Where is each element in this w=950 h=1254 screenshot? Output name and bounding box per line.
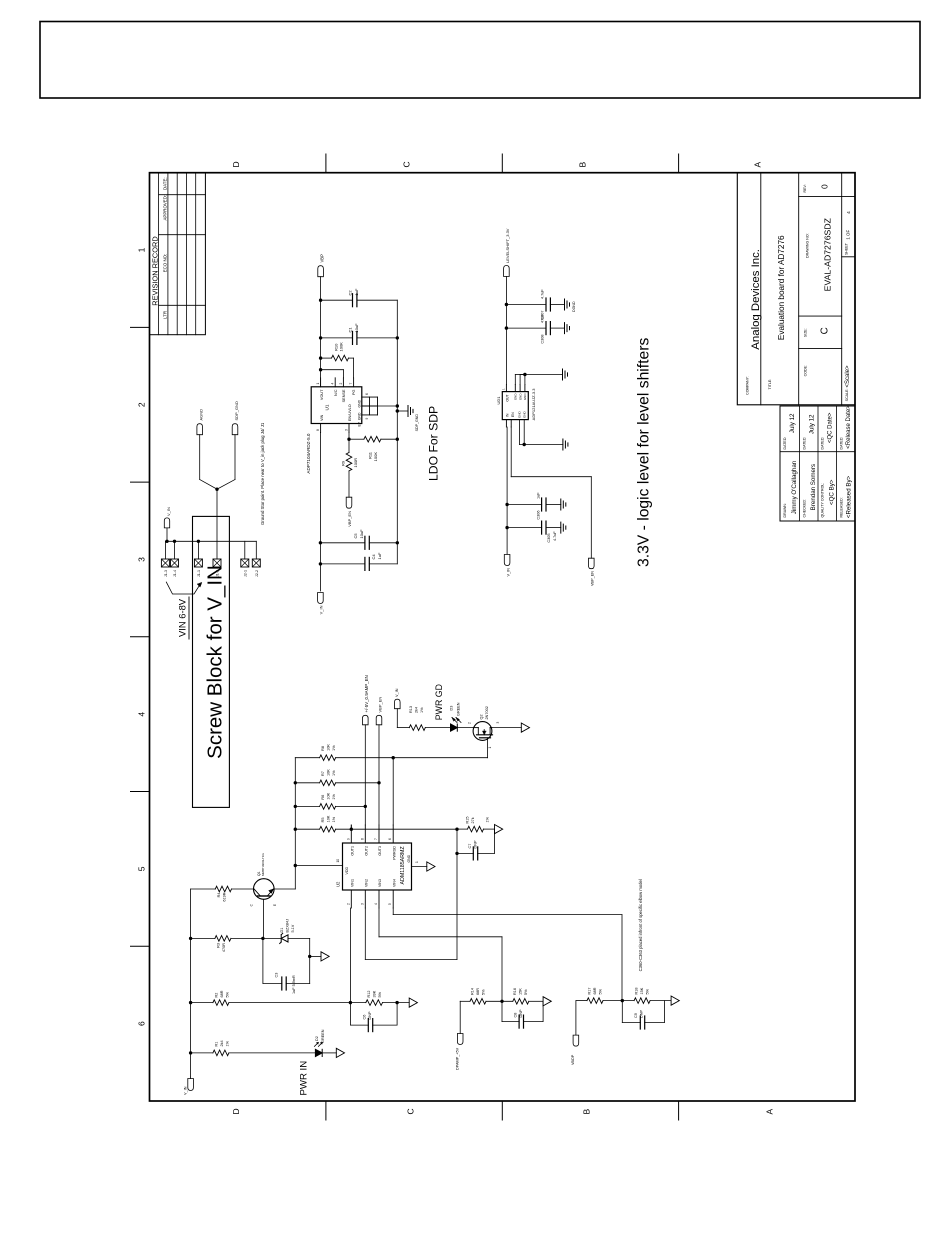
- svg-text:1uF 5.9mR: 1uF 5.9mR: [292, 975, 296, 994]
- svg-text:SIZE:: SIZE:: [804, 328, 808, 337]
- svg-text:1uF: 1uF: [354, 288, 359, 295]
- svg-text:<QC Date>: <QC Date>: [828, 412, 834, 443]
- U2 pin stubs left: [346, 890, 393, 908]
- resistor R15 27k: [457, 816, 495, 832]
- svg-text:C6: C6: [363, 1015, 367, 1020]
- svg-text:C360-C363 placed infront of sp: C360-C363 placed infront of specific elb…: [638, 879, 643, 971]
- svg-text:4.7uF: 4.7uF: [541, 289, 545, 299]
- svg-text:100K: 100K: [339, 342, 344, 352]
- svg-text:3: 3: [360, 903, 364, 905]
- transistor Q2 2N7002 mosfet: [468, 706, 501, 758]
- svg-text:470R: 470R: [222, 943, 226, 952]
- svg-text:GREEN: GREEN: [457, 702, 461, 716]
- svg-text:27k: 27k: [471, 817, 475, 823]
- svg-text:V_IN: V_IN: [395, 688, 399, 697]
- svg-text:EN/UVLO: EN/UVLO: [348, 404, 352, 421]
- ground C308 earth: [565, 323, 570, 334]
- label PWR IN: [299, 1061, 310, 1096]
- svg-text:8: 8: [316, 429, 320, 431]
- svg-text:3.3V - logic level for level s: 3.3V - logic level for level shifters: [636, 338, 653, 567]
- svg-text:2: 2: [346, 903, 350, 905]
- svg-text:D1: D1: [280, 928, 284, 933]
- svg-text:<Release Date>: <Release Date>: [846, 405, 852, 449]
- svg-text:VIN4: VIN4: [392, 879, 396, 887]
- svg-text:July 12: July 12: [809, 414, 816, 434]
- svg-text:MMBT3904LT1G: MMBT3904LT1G: [261, 853, 265, 876]
- svg-text:R16: R16: [513, 988, 517, 995]
- svg-text:CODE:: CODE:: [804, 365, 808, 376]
- svg-text:2k4: 2k4: [415, 707, 419, 713]
- UD1 left pin stubs: [506, 420, 511, 427]
- svg-text:A: A: [765, 1109, 775, 1115]
- svg-text:Screw Block for V_IN: Screw Block for V_IN: [204, 565, 227, 759]
- svg-text:OUT2: OUT2: [365, 846, 369, 856]
- flag VBP_EN levelshift: [589, 558, 595, 586]
- svg-text:DPAMP_+5V: DPAMP_+5V: [456, 1047, 460, 1070]
- svg-text:5%: 5%: [226, 991, 230, 997]
- wire UD1 EN net: [511, 427, 591, 558]
- svg-text:PWR GD: PWR GD: [434, 684, 444, 720]
- capacitor C1 10uF: [321, 323, 398, 345]
- ground SDP_GND earth: [397, 406, 419, 432]
- svg-text:Q2: Q2: [480, 714, 484, 719]
- svg-text:U2: U2: [336, 881, 341, 887]
- ground after R18: [671, 996, 679, 1005]
- section title LDO For SDP: [427, 406, 441, 481]
- svg-text:4: 4: [331, 383, 335, 385]
- capacitor C7 DNP: [457, 829, 495, 860]
- svg-text:10K: 10K: [327, 744, 331, 751]
- note ground star point: [260, 422, 265, 525]
- op-amp U1 regulator ADP7104ARDZ-5.0 box: [306, 387, 362, 474]
- svg-text:ADP121AUJZ-3.3: ADP121AUJZ-3.3: [531, 388, 536, 421]
- svg-text:10K: 10K: [327, 792, 331, 799]
- capacitor C6 DNP: [350, 1003, 397, 1032]
- zone numbers top edge: [137, 247, 147, 1026]
- approvals drawn row: [783, 413, 798, 518]
- wire UD1 OUT rail: [505, 277, 508, 385]
- svg-text:68R: 68R: [593, 987, 597, 994]
- svg-text:C7: C7: [468, 844, 472, 849]
- svg-text:C4: C4: [371, 554, 376, 560]
- label PWR GD: [434, 684, 444, 720]
- svg-text:Evaluation board for AD7276: Evaluation board for AD7276: [777, 235, 786, 340]
- title block sheet cell: [845, 211, 853, 255]
- top banner empty box: [40, 22, 920, 99]
- svg-text:D3: D3: [450, 706, 454, 711]
- flag VBP_EN ldo enable: [346, 497, 352, 527]
- U2 pin stubs right: [346, 825, 393, 843]
- svg-text:R6: R6: [321, 795, 325, 800]
- svg-text:619R: 619R: [223, 892, 227, 901]
- wire VDD drop to U2: [295, 859, 342, 866]
- resistor R17 68R: [587, 987, 634, 1003]
- svg-text:4: 4: [374, 903, 378, 905]
- svg-text:15K: 15K: [519, 988, 523, 995]
- resistor R13 2k4: [409, 706, 451, 730]
- svg-text:2k4: 2k4: [220, 1040, 224, 1046]
- svg-text:VBP: VBP: [320, 254, 325, 263]
- svg-text:VBDP: VBDP: [571, 1054, 575, 1065]
- wire Q1 emitter to bus: [274, 888, 295, 890]
- U1 bottom GND and EP pins: [362, 393, 398, 420]
- svg-text:J2-1: J2-1: [243, 570, 247, 577]
- resistor R5 10K pullup OUT1: [295, 815, 457, 832]
- svg-text:SENSE: SENSE: [342, 389, 346, 402]
- svg-text:VDD: VDD: [345, 867, 349, 875]
- flag LEVELSHIFT_3.3V: [504, 228, 510, 276]
- svg-text:10uF: 10uF: [359, 529, 364, 539]
- terminal J2-1: [241, 541, 249, 577]
- svg-text:PG: PG: [352, 389, 356, 395]
- transistor Q1 MMBT3904LT1G: [250, 853, 278, 939]
- wire UD1 IN rail: [505, 427, 508, 554]
- svg-text:V_IN: V_IN: [506, 568, 510, 577]
- wire VIN1 line: [349, 908, 351, 1003]
- flag V_IN ldo input: [318, 593, 324, 615]
- svg-text:4.7uF: 4.7uF: [553, 531, 557, 541]
- svg-text:BZX84J: BZX84J: [286, 919, 290, 933]
- svg-text:QUALITY CONTROL:: QUALITY CONTROL:: [821, 483, 825, 518]
- svg-text:1%: 1%: [486, 816, 490, 822]
- wire DPAMP to R14: [460, 1001, 470, 1033]
- wire Q2 source to ground: [492, 727, 521, 729]
- title block title: [768, 235, 786, 390]
- ground after D2: [336, 1048, 344, 1057]
- led D3 GREEN: [450, 702, 474, 731]
- svg-text:GND: GND: [518, 393, 522, 401]
- connector J1 J2 screw block outline: [193, 516, 230, 807]
- svg-text:ADM1185ARMZ: ADM1185ARMZ: [400, 846, 406, 885]
- svg-text:VIN1: VIN1: [351, 879, 355, 887]
- svg-text:R17: R17: [588, 988, 592, 995]
- svg-text:R11: R11: [368, 451, 373, 459]
- svg-text:DRAWN:: DRAWN:: [783, 503, 787, 517]
- svg-text:2: 2: [339, 383, 343, 385]
- svg-text:SDP_GND: SDP_GND: [415, 414, 419, 432]
- ground Q2 source: [521, 723, 529, 732]
- wire VBDP to R17: [576, 1001, 587, 1036]
- svg-text:1%: 1%: [226, 1040, 230, 1046]
- svg-text:R14: R14: [471, 988, 475, 995]
- terminal J1-3: [161, 541, 169, 577]
- section title 3.3V logic level: [636, 338, 653, 567]
- svg-text:C305: C305: [547, 534, 551, 543]
- svg-text:C8: C8: [514, 1013, 518, 1018]
- wire VIN4 line: [393, 908, 622, 1001]
- capacitor C8 DNP: [502, 1001, 543, 1028]
- svg-text:ADP7104ARDZ-5.0: ADP7104ARDZ-5.0: [306, 433, 311, 474]
- wire VOUT rail: [319, 277, 322, 387]
- svg-text:GND: GND: [518, 411, 522, 419]
- svg-text:10uF: 10uF: [354, 323, 359, 333]
- svg-text:1uF: 1uF: [537, 492, 541, 499]
- svg-text:47uF: 47uF: [541, 314, 545, 323]
- svg-text:R13: R13: [409, 706, 413, 713]
- svg-text:RELEASED:: RELEASED:: [839, 497, 843, 517]
- svg-text:DNP: DNP: [519, 1009, 523, 1017]
- svg-text:DRAWING NO:: DRAWING NO:: [806, 233, 810, 258]
- zener D1 BZX84J 5.1V: [263, 919, 310, 944]
- terminal J2-2: [252, 541, 260, 577]
- svg-text:DNP: DNP: [640, 1010, 644, 1018]
- svg-text:+/-5V_0.9AMP_EN: +/-5V_0.9AMP_EN: [364, 675, 369, 712]
- svg-text:D2: D2: [315, 1036, 319, 1041]
- ground C305 earth: [561, 522, 566, 533]
- flag +/-5V_0.9AMP_EN: [363, 675, 369, 725]
- wire ground star net: [200, 435, 235, 559]
- title block size cell: [804, 327, 831, 337]
- svg-text:C2: C2: [348, 290, 353, 296]
- flag V_IN levelshift: [504, 555, 510, 577]
- svg-text:R5: R5: [321, 818, 325, 823]
- wire LDO GND rail: [396, 300, 399, 564]
- svg-text:DATED:: DATED:: [821, 437, 825, 450]
- zone ticks top edge: [131, 327, 150, 946]
- svg-text:5%: 5%: [378, 991, 382, 997]
- svg-text:J2-2: J2-2: [255, 570, 259, 577]
- revision table title: [150, 236, 159, 305]
- svg-text:R2: R2: [215, 993, 219, 998]
- resistor R11 100K: [349, 436, 397, 461]
- svg-text:1%: 1%: [332, 793, 336, 799]
- svg-text:1%: 1%: [332, 745, 336, 751]
- svg-text:CHECKED:: CHECKED:: [803, 499, 807, 518]
- resistor R9 100R: [341, 453, 359, 498]
- svg-text:DATED:: DATED:: [803, 437, 807, 450]
- svg-text:<Scale>: <Scale>: [845, 365, 851, 388]
- svg-text:V_IN: V_IN: [319, 605, 324, 614]
- svg-text:7: 7: [349, 383, 353, 385]
- flag DPAMP_+5V: [456, 1034, 464, 1071]
- resistor R6 10K pullup OUT2: [295, 792, 365, 809]
- capacitor C305 4.7uF: [507, 521, 561, 542]
- wire PWRGD net: [392, 756, 395, 825]
- note C360-C363 placement: [638, 879, 643, 971]
- svg-text:ECO NO:: ECO NO:: [163, 254, 168, 273]
- svg-text:GND: GND: [514, 393, 518, 401]
- svg-text:E: E: [273, 904, 277, 906]
- capacitor C4 1uF: [320, 552, 397, 570]
- ground DGND right earth: [563, 369, 568, 380]
- svg-text:3: 3: [496, 722, 500, 724]
- approvals table grid: [780, 406, 855, 521]
- svg-text:3: 3: [345, 429, 349, 431]
- U1 pin stubs right: [316, 378, 354, 387]
- svg-text:REVISION RECORD: REVISION RECORD: [150, 236, 159, 305]
- resistor R3 470R: [191, 936, 263, 952]
- svg-text:68R: 68R: [220, 990, 224, 997]
- flag V_IN main input: [184, 1077, 194, 1095]
- svg-text:J1-3: J1-3: [164, 570, 168, 577]
- svg-text:REV:: REV:: [803, 184, 807, 192]
- zone ticks right edge: [326, 154, 679, 173]
- svg-text:DGND: DGND: [572, 301, 576, 312]
- svg-text:R4: R4: [217, 893, 221, 898]
- callout brace to J1 pins: [166, 582, 202, 594]
- svg-text:Jimmy O'Callaghan: Jimmy O'Callaghan: [791, 460, 798, 514]
- terminal J1-4: [171, 541, 179, 577]
- svg-text:UD1: UD1: [496, 396, 501, 405]
- svg-text:10: 10: [336, 859, 340, 863]
- sheet frame border: [150, 173, 856, 1101]
- U1 pin stubs left: [316, 424, 349, 433]
- svg-text:OUT3: OUT3: [378, 846, 382, 856]
- svg-text:LTR: LTR: [163, 311, 168, 319]
- svg-text:U1: U1: [325, 404, 330, 410]
- svg-text:DATE:: DATE:: [163, 177, 168, 190]
- svg-text:Brendan Somers: Brendan Somers: [810, 464, 817, 510]
- capacitor C5 10uF: [320, 529, 397, 549]
- flag V_IN screw block: [164, 507, 171, 541]
- svg-text:B: B: [582, 1109, 592, 1115]
- wire VIN2 line: [365, 828, 458, 960]
- svg-text:VBP_EN: VBP_EN: [378, 697, 383, 713]
- resistor R16 15K: [513, 988, 543, 1004]
- label VIN 6-8V: [177, 597, 190, 639]
- flag V_IN pwr gd: [395, 688, 401, 708]
- svg-text:GND: GND: [357, 399, 361, 407]
- wire OUT1 net: [350, 825, 353, 831]
- svg-text:R1: R1: [215, 1042, 219, 1047]
- svg-text:July 12: July 12: [789, 413, 796, 433]
- capacitor C306 1uF: [507, 492, 561, 520]
- svg-text:R18: R18: [635, 988, 639, 995]
- ground after R12: [409, 998, 417, 1007]
- svg-text:9: 9: [365, 418, 369, 420]
- svg-text:GREEN: GREEN: [321, 1029, 325, 1043]
- svg-text:5%: 5%: [599, 988, 603, 994]
- wire OUT2 net: [364, 725, 367, 825]
- svg-text:100K: 100K: [373, 452, 378, 462]
- svg-text:0: 0: [820, 184, 830, 189]
- svg-text:VOUT: VOUT: [320, 389, 324, 400]
- svg-text:C306: C306: [537, 511, 541, 520]
- UD1 right pin stubs: [502, 385, 525, 392]
- approvals quality row: [821, 412, 836, 517]
- svg-text:V_IN: V_IN: [184, 1086, 188, 1095]
- svg-text:7: 7: [374, 838, 378, 840]
- svg-text:N/C: N/C: [334, 389, 338, 396]
- flag VBP: [318, 254, 325, 277]
- svg-text:DNP: DNP: [368, 1011, 372, 1019]
- svg-text:OUT: OUT: [506, 395, 510, 402]
- svg-text:C: C: [406, 1108, 416, 1114]
- svg-text:SHEET: SHEET: [845, 242, 849, 255]
- svg-text:D: D: [231, 1108, 241, 1114]
- resistor R2 68R: [191, 990, 351, 1005]
- svg-text:Analog Devices Inc.: Analog Devices Inc.: [750, 249, 762, 350]
- svg-text:GND: GND: [523, 411, 527, 419]
- wire SENSE tie: [321, 370, 344, 378]
- svg-text:VIN2: VIN2: [365, 879, 369, 887]
- svg-text:5: 5: [137, 866, 147, 871]
- svg-text:15K: 15K: [640, 987, 644, 994]
- revision record table: [150, 173, 206, 335]
- svg-text:C: C: [820, 327, 831, 334]
- U2 GND pin to ground: [412, 861, 436, 871]
- svg-text:DNP: DNP: [474, 840, 478, 848]
- wire VIN3 line: [379, 908, 502, 1001]
- title block grid: [737, 173, 855, 405]
- svg-text:68R: 68R: [476, 988, 480, 995]
- svg-text:39K: 39K: [373, 990, 377, 997]
- svg-text:3: 3: [137, 557, 147, 562]
- wire VIN1 sense: [349, 908, 352, 1004]
- svg-text:J1-4: J1-4: [173, 570, 177, 577]
- flag VBP_EN out3: [376, 697, 382, 725]
- svg-text:EN: EN: [511, 412, 515, 417]
- svg-text:C9: C9: [634, 1013, 638, 1018]
- terminal J1-1: [194, 541, 202, 577]
- svg-text:VBP_EN: VBP_EN: [591, 571, 595, 586]
- capacitor C307 4.7uF: [506, 289, 564, 320]
- svg-text:5: 5: [388, 903, 392, 905]
- svg-text:R3: R3: [217, 943, 221, 948]
- svg-text:R12: R12: [367, 991, 371, 998]
- svg-text:1%: 1%: [420, 707, 424, 713]
- wire OUT3 net: [377, 725, 380, 825]
- svg-text:SDP_GND: SDP_GND: [234, 401, 239, 420]
- wire UD1 gnd tie right: [515, 373, 562, 385]
- title block rev cell: [803, 184, 830, 193]
- svg-text:8: 8: [360, 838, 364, 840]
- zone ticks left edge: [326, 1101, 679, 1120]
- title block scale cell: [845, 365, 851, 401]
- resistor R4 619R: [191, 886, 254, 901]
- svg-text:4: 4: [137, 712, 147, 717]
- node A junction: [261, 937, 264, 940]
- svg-text:EP_GND: EP_GND: [357, 412, 361, 426]
- resistor R14 68R: [470, 988, 513, 1004]
- title block code cell: [804, 365, 808, 376]
- resistor R12 39K: [350, 990, 409, 1005]
- svg-text:4: 4: [846, 211, 852, 214]
- ground C307 earth DGND: [565, 299, 577, 312]
- svg-text:PWRGD: PWRGD: [392, 846, 396, 860]
- flag AGND: [197, 409, 204, 435]
- zone letters left edge: [231, 1108, 775, 1114]
- led D2 GREEN: [314, 1029, 336, 1056]
- op-amp U2 ADM1185ARMZ box: [336, 843, 412, 890]
- svg-text:C3: C3: [275, 973, 279, 978]
- title block drawing number: [806, 217, 833, 291]
- svg-text:APPROVED:: APPROVED:: [163, 195, 168, 221]
- capacitor C3 1uF: [263, 938, 310, 994]
- terminal J1-2: [213, 559, 221, 577]
- resistor R8 10K pullup PWRGD: [295, 744, 487, 761]
- svg-text:OUT1: OUT1: [351, 846, 355, 856]
- svg-text:VBP_EN: VBP_EN: [347, 511, 352, 527]
- svg-text:D: D: [231, 161, 241, 167]
- resistor R10 100K: [321, 342, 354, 378]
- flag SDP_GND: [232, 401, 239, 435]
- svg-text:6: 6: [365, 393, 369, 395]
- svg-text:<QC By>: <QC By>: [829, 479, 836, 505]
- svg-text:2: 2: [137, 402, 147, 407]
- svg-text:5%: 5%: [524, 989, 528, 995]
- capacitor C9 DNP: [622, 1001, 664, 1029]
- resistor R1 2k4: [191, 1040, 316, 1055]
- svg-text:2: 2: [468, 722, 472, 724]
- svg-text:VIN3: VIN3: [378, 879, 382, 887]
- svg-text:VIN: VIN: [320, 414, 324, 421]
- svg-text:1%: 1%: [332, 770, 336, 776]
- capacitor C2 1uF: [321, 288, 398, 307]
- wire terminal bus: [165, 540, 256, 543]
- capacitor C308 47uF: [506, 314, 564, 344]
- svg-text:100R: 100R: [353, 458, 358, 468]
